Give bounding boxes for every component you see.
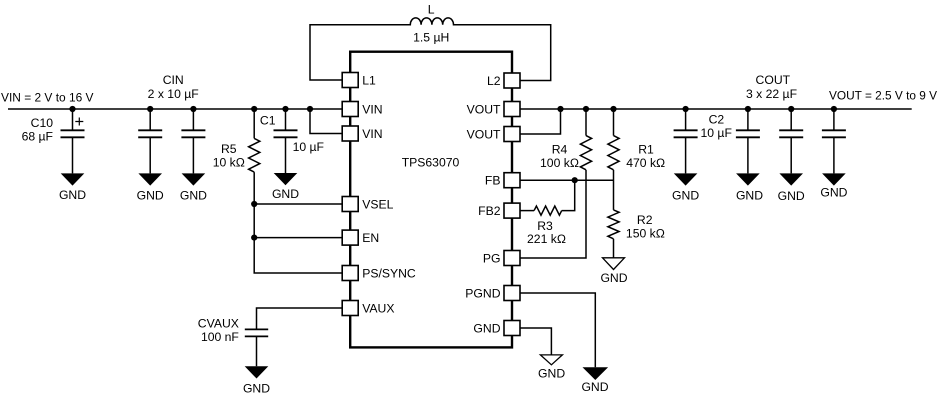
svg-text:GND: GND	[538, 366, 565, 380]
svg-text:L1: L1	[362, 73, 376, 87]
svg-text:PGND: PGND	[465, 286, 500, 300]
svg-text:FB2: FB2	[478, 204, 501, 218]
svg-text:R1: R1	[638, 143, 654, 157]
svg-text:R2: R2	[637, 213, 653, 227]
svg-text:VAUX: VAUX	[362, 301, 394, 315]
svg-text:EN: EN	[362, 231, 379, 245]
svg-text:R3: R3	[537, 219, 553, 233]
svg-text:VOUT = 2.5 V to 9 V: VOUT = 2.5 V to 9 V	[829, 89, 938, 103]
svg-text:GND: GND	[180, 189, 207, 203]
svg-text:GND: GND	[778, 189, 805, 203]
svg-text:10 µF: 10 µF	[700, 126, 731, 140]
svg-text:CVAUX: CVAUX	[198, 317, 239, 331]
svg-text:GND: GND	[59, 188, 86, 202]
svg-text:100 nF: 100 nF	[201, 330, 239, 344]
svg-text:C2: C2	[709, 112, 725, 126]
svg-text:3 x 22 µF: 3 x 22 µF	[746, 87, 797, 101]
svg-text:PS/SYNC: PS/SYNC	[362, 266, 416, 280]
svg-text:VSEL: VSEL	[362, 197, 393, 211]
svg-text:VOUT: VOUT	[467, 127, 501, 141]
svg-text:GND: GND	[473, 321, 500, 335]
svg-text:GND: GND	[243, 381, 270, 395]
svg-text:VIN: VIN	[362, 102, 382, 116]
svg-text:FB: FB	[485, 174, 501, 188]
svg-text:GND: GND	[581, 380, 608, 394]
svg-text:221 kΩ: 221 kΩ	[527, 232, 566, 246]
svg-text:VOUT: VOUT	[467, 102, 501, 116]
svg-text:TPS63070: TPS63070	[402, 156, 460, 170]
svg-text:470 kΩ: 470 kΩ	[626, 156, 665, 170]
svg-text:L: L	[428, 3, 435, 17]
svg-text:C10: C10	[31, 116, 54, 130]
svg-text:COUT: COUT	[756, 73, 791, 87]
svg-text:GND: GND	[272, 187, 299, 201]
svg-text:68 µF: 68 µF	[22, 129, 53, 143]
svg-text:GND: GND	[137, 189, 164, 203]
svg-text:10 µF: 10 µF	[293, 140, 324, 154]
svg-text:CIN: CIN	[163, 73, 184, 87]
svg-text:100 kΩ: 100 kΩ	[540, 156, 579, 170]
svg-text:PG: PG	[483, 251, 501, 265]
svg-text:L2: L2	[487, 74, 501, 88]
svg-text:GND: GND	[600, 271, 627, 285]
svg-text:GND: GND	[672, 188, 699, 202]
svg-text:10 kΩ: 10 kΩ	[213, 156, 245, 170]
svg-text:R4: R4	[552, 143, 568, 157]
svg-text:VIN: VIN	[362, 127, 382, 141]
svg-text:VIN = 2 V to 16 V: VIN = 2 V to 16 V	[1, 90, 94, 104]
svg-text:GND: GND	[820, 186, 847, 200]
svg-text:1.5 µH: 1.5 µH	[413, 31, 449, 45]
svg-text:150 kΩ: 150 kΩ	[626, 226, 665, 240]
svg-text:R5: R5	[221, 142, 237, 156]
svg-text:C1: C1	[260, 114, 276, 128]
svg-text:2 x 10 µF: 2 x 10 µF	[148, 87, 199, 101]
svg-text:GND: GND	[736, 189, 763, 203]
